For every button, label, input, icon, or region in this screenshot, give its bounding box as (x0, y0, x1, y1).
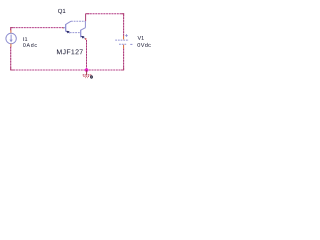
Q1a collector diagonal (66, 21, 71, 24)
base lead (63, 27, 66, 29)
Q1b emitter diagonal with arrow (81, 36, 85, 38)
ground symbol (83, 70, 92, 78)
wire corner elbows (11, 14, 124, 70)
transistor Q1 (PNP darlington MJF127) (63, 21, 87, 40)
junction node 0 (85, 68, 89, 72)
wire: bottom ground rail (11, 69, 124, 71)
base pin tip (63, 27, 64, 28)
pin I1 bottom (10, 44, 12, 47)
wire: V1 bottom riser (123, 48, 125, 70)
Q1a emitter diagonal with arrow (66, 31, 70, 33)
voltage source V1 (115, 34, 132, 44)
wire: I1 top to Q1 base (11, 28, 63, 31)
svg-text:MJF127: MJF127 (56, 49, 83, 56)
label 0 (ground net) (91, 76, 93, 78)
Q1b base bar (80, 30, 82, 38)
pin I1 top (10, 30, 12, 33)
Q1a emitter to Q1b base (70, 32, 80, 34)
pin V1 plus (123, 36, 125, 40)
wire: Q1 collector down to ground junction (86, 40, 88, 70)
Q1b collector diagonal (81, 28, 86, 31)
Q1a base bar (65, 24, 67, 32)
top horizontal of symbol (71, 20, 85, 22)
wire: I1 bottom down to rail (10, 47, 12, 70)
right vertical joining top post (84, 21, 86, 28)
pin V1 minus (123, 45, 125, 49)
svg-text:0Vdc: 0Vdc (137, 42, 151, 49)
collector pin tip (85, 38, 87, 40)
svg-text:0Adc: 0Adc (23, 43, 38, 49)
svg-text:V1: V1 (137, 36, 144, 42)
current source I1 (6, 33, 16, 43)
wire: V1 top riser and top rail to Q1 emitter (86, 13, 125, 36)
svg-text:Q1: Q1 (58, 8, 67, 15)
